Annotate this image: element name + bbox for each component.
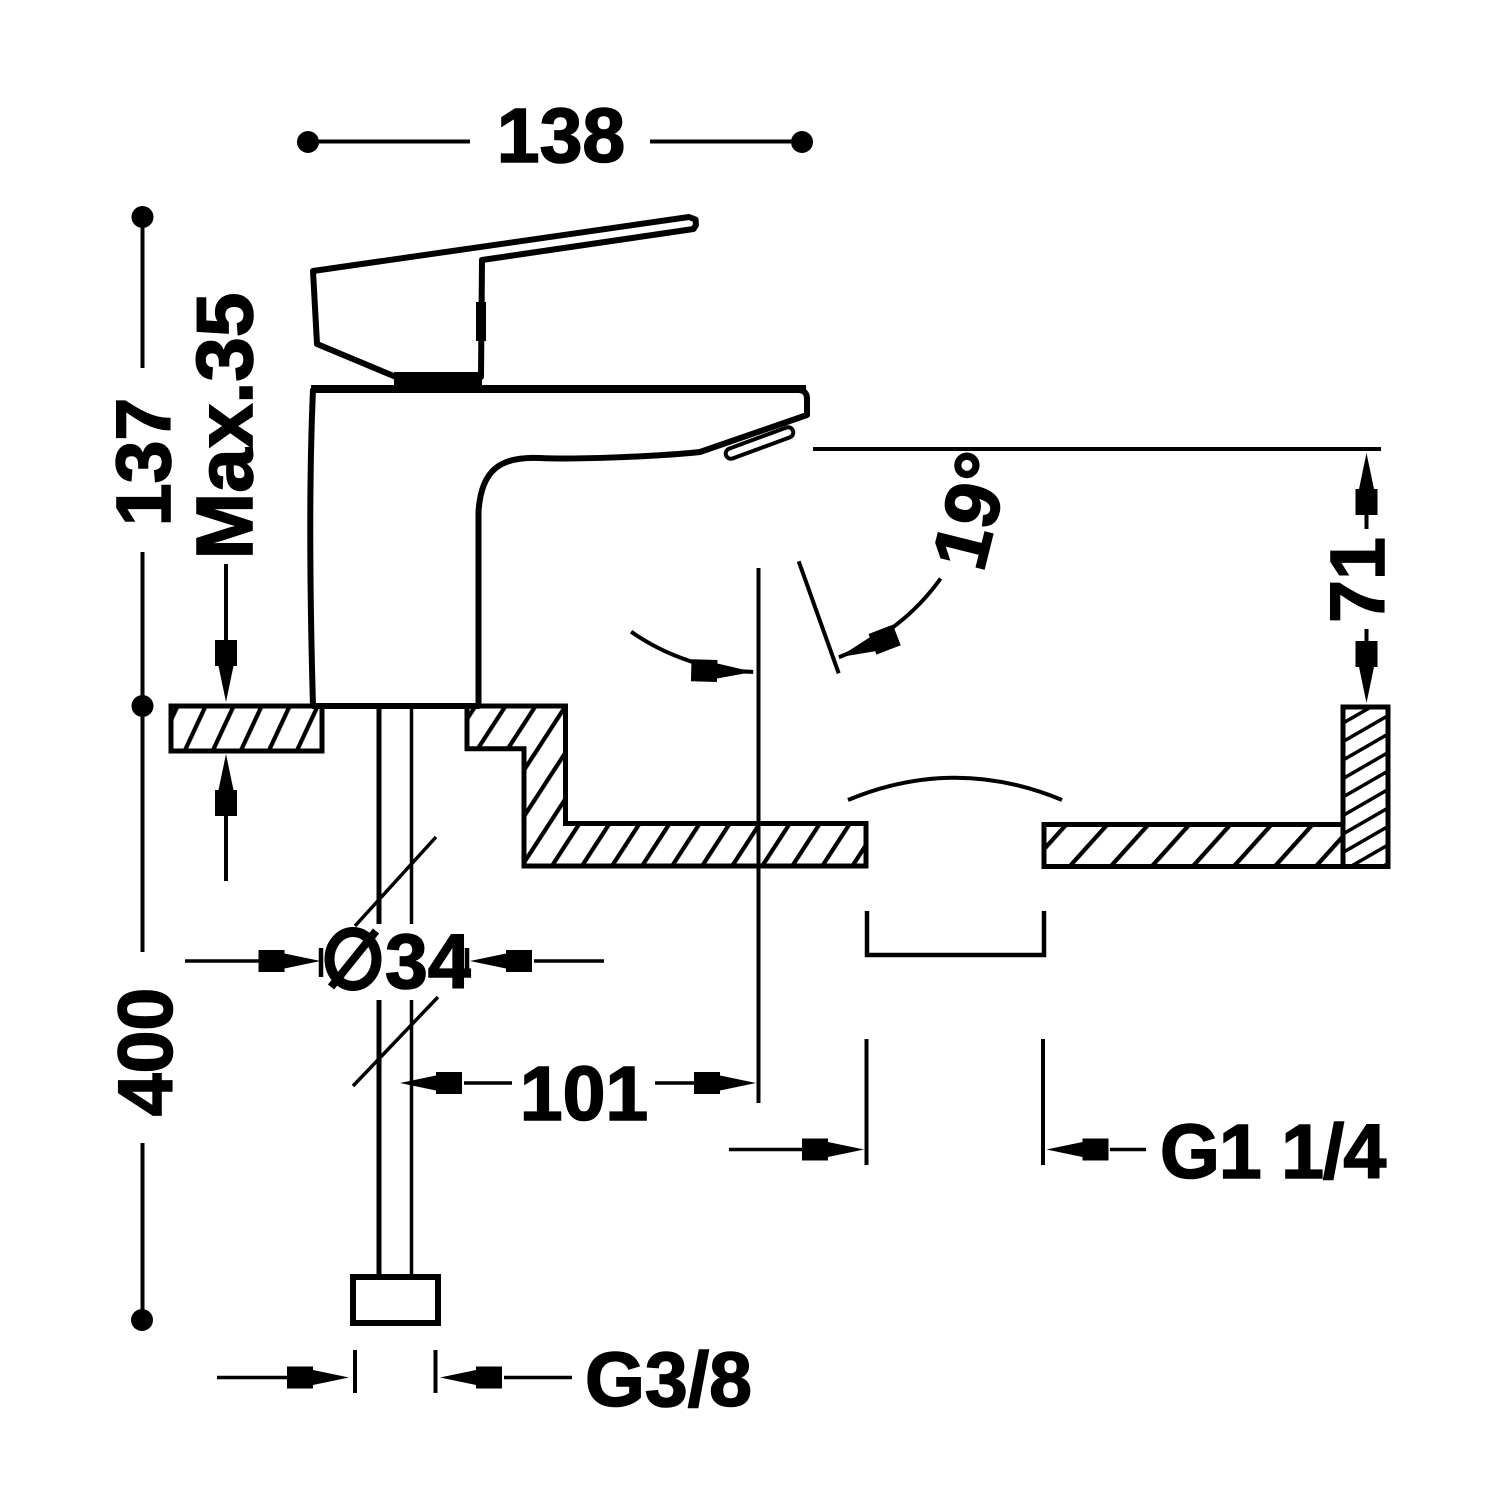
shank break line lower: [353, 997, 438, 1086]
basin rim arc: [848, 778, 1062, 800]
spout outlet centerline: [757, 568, 761, 1103]
dimension 138 dot left: [297, 131, 319, 153]
basin right L outline: [1044, 707, 1388, 867]
countertop left slab (hatched): [171, 706, 322, 751]
svg-text:137: 137: [101, 398, 187, 526]
spout height reference line: [813, 447, 1381, 451]
water stream 19 deg line: [799, 561, 839, 673]
dimension O34 right arrow: [470, 950, 532, 972]
dimension 137/400 shared dot: [132, 695, 154, 717]
angle arc right segment: [839, 579, 941, 658]
supply shank right line: [410, 709, 414, 924]
dimension 138 dot right: [791, 131, 813, 153]
shank break line upper: [355, 837, 436, 926]
dimension 400 line: [141, 706, 145, 1320]
angle arc left segment: [631, 632, 753, 672]
basin right bottom slab (hatched): [1044, 825, 1343, 867]
dimension 400 dot bottom: [131, 1309, 153, 1331]
svg-text:G3/8: G3/8: [585, 1337, 752, 1423]
hose nut: [353, 1277, 438, 1323]
dimension 101 left arrow: [400, 1072, 462, 1094]
handle front detail: [476, 302, 486, 341]
svg-text:71: 71: [1315, 537, 1401, 623]
drain flange bracket: [867, 911, 1044, 955]
svg-text:G1 1/4: G1 1/4: [1160, 1109, 1386, 1195]
faucet body and spout: [310, 390, 807, 706]
O34 tick right: [465, 948, 470, 977]
dimension G1 1/4 left arrow: [729, 1148, 804, 1152]
handle/body gap shadow: [394, 372, 482, 388]
Max.35 down arrow: [224, 564, 228, 646]
dimension 137 dot top: [132, 206, 154, 228]
drain tail right tick: [1041, 1039, 1045, 1165]
dimension G3/8 right arrow: [440, 1367, 502, 1389]
svg-text:138: 138: [497, 93, 625, 179]
dimension 138 line right: [650, 140, 802, 144]
dimension 71 down arrow: [1356, 641, 1378, 703]
O34 tick left: [319, 948, 324, 977]
dimension 138 line left: [308, 140, 802, 144]
dimension G3/8 ticks: [353, 1350, 357, 1393]
svg-text:400: 400: [103, 988, 189, 1116]
dimension G3/8 left arrow: [217, 1376, 290, 1380]
svg-text:101: 101: [520, 1051, 648, 1137]
handle lever: [313, 217, 696, 377]
svg-text:Max.35: Max.35: [180, 293, 269, 560]
basin left section (hatched step): [467, 706, 866, 866]
dimension G1 1/4 right arrow: [1047, 1139, 1109, 1161]
Max.35 up arrow: [224, 812, 228, 881]
basin right wall (hatched): [1343, 707, 1388, 867]
aerator at spout tip: [731, 433, 788, 454]
dimension label O34: [330, 931, 377, 987]
drain tail left tick: [865, 1039, 869, 1165]
svg-text:34: 34: [385, 919, 471, 1005]
dimension 137 line: [141, 217, 145, 706]
supply shank left line: [377, 709, 382, 924]
dimension O34 left arrow: [185, 959, 270, 963]
dimension 101 right arrow: [655, 1081, 700, 1085]
dimension 71 up arrow: [1356, 453, 1378, 515]
faucet body top line (thick): [311, 385, 806, 393]
